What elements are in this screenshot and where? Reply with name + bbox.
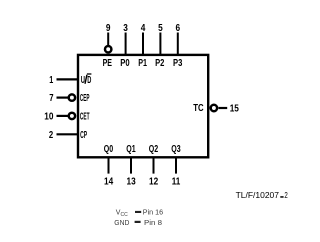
svg-text:2: 2: [49, 130, 54, 141]
svg-text:TC: TC: [193, 103, 203, 114]
svg-text:CP: CP: [80, 130, 87, 141]
svg-text:P2: P2: [155, 58, 165, 69]
svg-text:5: 5: [158, 23, 163, 34]
svg-text:Q2: Q2: [149, 144, 159, 155]
svg-text:Q1: Q1: [126, 144, 136, 155]
svg-text:14: 14: [104, 176, 114, 187]
svg-text:7: 7: [49, 93, 54, 104]
svg-text:P3: P3: [173, 58, 183, 69]
svg-text:P0: P0: [120, 58, 130, 69]
svg-text:CC: CC: [121, 212, 129, 218]
svg-text:11: 11: [172, 176, 181, 187]
svg-text:13: 13: [127, 176, 137, 187]
svg-text:Pin 8: Pin 8: [144, 220, 162, 227]
svg-text:Q0: Q0: [104, 144, 114, 155]
svg-text:Q3: Q3: [171, 144, 181, 155]
svg-text:U: U: [81, 75, 85, 86]
svg-text:PE: PE: [103, 58, 113, 69]
svg-text:CEP: CEP: [80, 93, 90, 104]
svg-text:Pin 16: Pin 16: [143, 209, 163, 216]
svg-text:P1: P1: [138, 58, 147, 69]
svg-text:12: 12: [149, 176, 159, 187]
svg-text:3: 3: [123, 23, 128, 34]
svg-text:CET: CET: [80, 111, 90, 122]
svg-text:1: 1: [49, 75, 53, 86]
svg-text:10: 10: [44, 112, 54, 123]
svg-text:2: 2: [284, 191, 288, 200]
svg-text:15: 15: [230, 103, 240, 114]
svg-text:4: 4: [141, 23, 146, 34]
svg-text:D: D: [87, 75, 91, 86]
svg-text:GND: GND: [114, 220, 129, 227]
svg-text:9: 9: [106, 23, 111, 34]
svg-text:6: 6: [176, 23, 181, 34]
svg-text:TL/F/10207: TL/F/10207: [236, 191, 280, 200]
